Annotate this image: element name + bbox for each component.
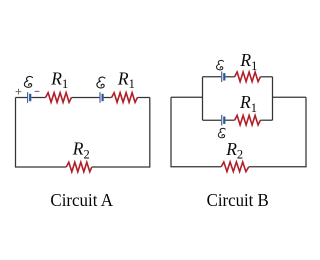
wire A top: resistor R1b to right corner: [137, 97, 149, 99]
polarity - of battery 1: [35, 90, 40, 92]
battery 3 (emf source, circuit B top branch): [222, 72, 225, 83]
label emf of battery 4: [218, 128, 225, 137]
resistor R1a (circuit A top left): [46, 93, 72, 103]
svg-text:R1: R1: [239, 50, 257, 73]
resistor R1d (circuit B bottom branch): [235, 115, 261, 125]
wire B top branch: resistor R1c to right corner: [260, 76, 272, 78]
svg-text:Circuit A: Circuit A: [50, 190, 113, 210]
wire B outer bottom-right and right side: [249, 97, 306, 167]
wire B parallel box right vertical: [272, 77, 274, 120]
wire B bottom branch: battery 4 to resistor R1d: [225, 119, 234, 121]
battery 2 (emf source, circuit A): [100, 92, 103, 103]
wire B left feed to parallel box: [171, 96, 203, 98]
wire A top: battery 1 to resistor R1a: [31, 97, 45, 99]
battery 4 (emf source, circuit B bottom branch): [222, 115, 225, 126]
polarity + of battery 1: [16, 89, 22, 95]
svg-text:R1: R1: [50, 68, 68, 91]
wire A top: resistor R1a to battery 2: [71, 97, 99, 99]
wire A left side and bottom-left: [16, 98, 67, 168]
wire B parallel box left vertical: [202, 77, 204, 120]
wire A bottom-right and right side: [92, 98, 150, 168]
wire A top: battery 2 to resistor R1b: [104, 97, 112, 99]
wire A top: corner to battery 1: [16, 97, 28, 99]
svg-text:R1: R1: [117, 68, 135, 91]
wire B outer left side and bottom-left: [171, 97, 221, 167]
svg-text:R1: R1: [239, 92, 257, 115]
resistor R1c (circuit B top branch): [235, 72, 261, 82]
resistor R2 (circuit B bottom): [221, 162, 249, 172]
label emf of battery 1: [24, 76, 32, 87]
svg-text:Circuit B: Circuit B: [207, 190, 269, 210]
battery 1 (emf source, circuit A): [28, 92, 31, 103]
label emf of battery 2: [97, 77, 105, 88]
wire B bottom branch: resistor R1d to right corner: [260, 119, 272, 121]
wire B top branch: left corner to battery 3: [203, 76, 222, 78]
wire B right feed from parallel box: [273, 96, 307, 98]
wire B top branch: battery 3 to resistor R1c: [225, 76, 234, 78]
wire B bottom branch: left corner to battery 4: [203, 119, 222, 121]
label emf of battery 3: [216, 60, 223, 69]
svg-text:R2: R2: [225, 139, 243, 162]
resistor R2 (circuit A bottom): [66, 162, 92, 172]
resistor R1b (circuit A top right): [112, 93, 138, 103]
svg-text:R2: R2: [72, 139, 90, 162]
